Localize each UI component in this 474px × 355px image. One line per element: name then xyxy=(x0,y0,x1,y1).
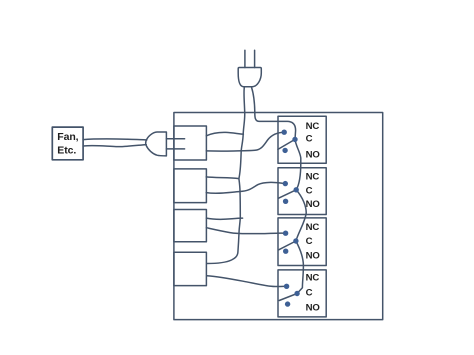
appliance plug P2 prong lower xyxy=(166,148,184,150)
relay box K2 xyxy=(278,168,326,215)
terminal NC2 xyxy=(283,181,288,186)
wire: O1 top tap to neutral xyxy=(206,132,243,135)
plug P1 body xyxy=(238,68,261,87)
svg-text:NC: NC xyxy=(306,222,320,233)
svg-text:NO: NO xyxy=(306,149,321,160)
svg-text:NC: NC xyxy=(306,121,320,132)
svg-text:NC: NC xyxy=(306,273,320,284)
svg-text:Etc.: Etc. xyxy=(57,145,76,157)
appliance plug P2 body xyxy=(146,132,167,156)
terminal NO4 xyxy=(285,301,290,306)
terminal C3 xyxy=(293,238,298,243)
wire: O1 bottom to NC1 xyxy=(206,132,284,151)
outlet box O3 xyxy=(174,210,207,242)
terminal NO3 xyxy=(283,249,288,254)
svg-text:C: C xyxy=(306,287,313,298)
appliance box "Fan, Etc." xyxy=(52,127,83,160)
svg-text:Fan,: Fan, xyxy=(57,131,78,143)
plug P1 prong left xyxy=(244,50,246,67)
outlet box O1 xyxy=(174,126,207,160)
svg-text:NO: NO xyxy=(306,199,321,210)
wire: O3 bottom to NC3 xyxy=(206,228,285,234)
plug P1 prong right xyxy=(254,50,256,67)
wire: hot feed from plug through C1..C4 chain xyxy=(252,88,307,294)
outlet box O2 xyxy=(174,169,207,203)
terminal NC1 xyxy=(282,130,287,135)
svg-text:C: C xyxy=(306,133,313,144)
relay box K4 xyxy=(278,270,326,317)
wire: O3 top tap to neutral xyxy=(206,218,242,219)
appliance plug P2 prong upper xyxy=(166,138,184,140)
relay K3 switch arm xyxy=(279,241,296,250)
terminal C2 xyxy=(294,187,299,192)
terminal NC3 xyxy=(283,231,288,236)
terminal NC4 xyxy=(284,284,289,289)
relay K1 switch arm xyxy=(278,139,295,149)
svg-text:NO: NO xyxy=(306,302,321,313)
wire: O2 top tap to neutral xyxy=(206,177,239,179)
relay box K3 xyxy=(278,218,326,266)
wire: O2 bottom to NC2 xyxy=(206,182,285,193)
relay K4 switch arm xyxy=(279,294,297,301)
appliance cord lower xyxy=(83,145,146,147)
appliance cord upper xyxy=(83,138,147,141)
enclosure box xyxy=(174,113,383,320)
outlet box O4 xyxy=(174,252,207,285)
relay K2 switch arm xyxy=(278,190,296,199)
svg-text:NC: NC xyxy=(306,172,320,183)
terminal NO2 xyxy=(283,199,288,204)
svg-text:C: C xyxy=(306,186,313,197)
wire: neutral from plug down to outlet O4 xyxy=(207,88,245,264)
terminal NO1 xyxy=(282,148,287,153)
svg-text:C: C xyxy=(306,236,313,247)
relay box K1 xyxy=(278,116,326,163)
wire: O4 bottom to NC4 xyxy=(207,276,287,287)
svg-text:NO: NO xyxy=(306,251,321,262)
terminal C4 xyxy=(294,291,299,296)
terminal C1 xyxy=(292,137,297,142)
